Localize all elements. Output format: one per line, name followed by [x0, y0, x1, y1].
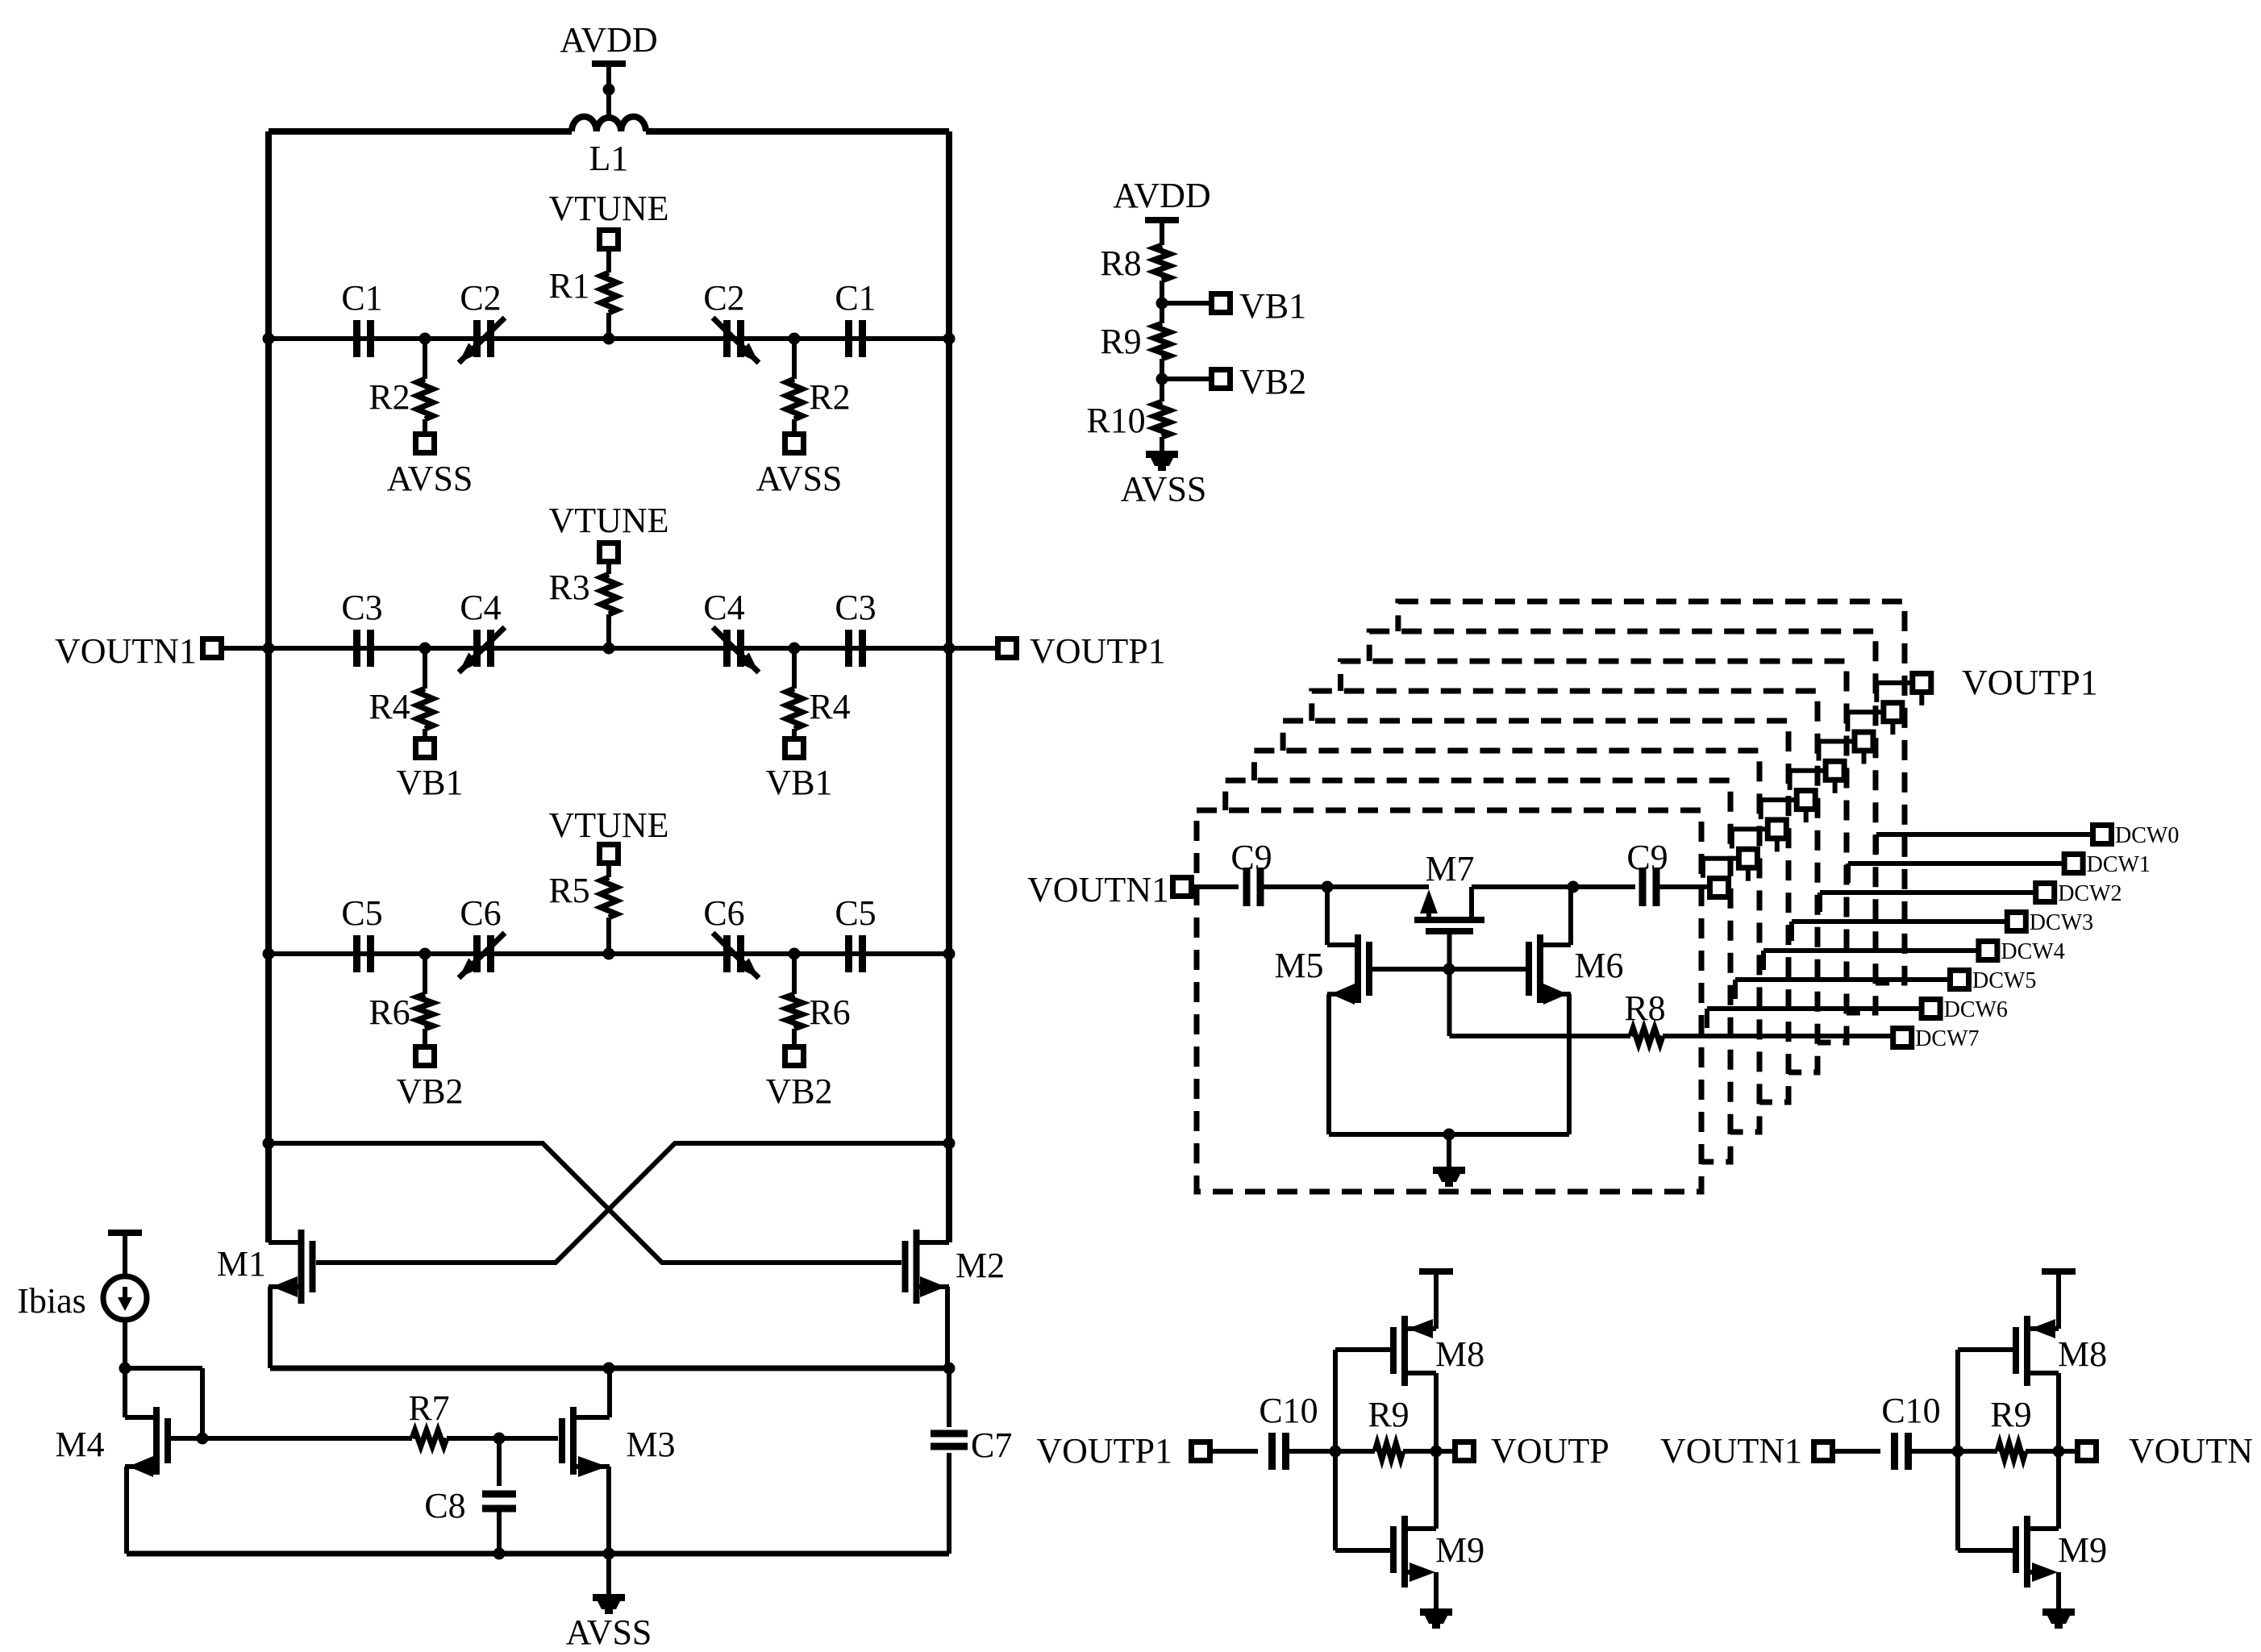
svg-text:C1: C1 — [341, 278, 382, 318]
svg-text:VB2: VB2 — [765, 1072, 832, 1111]
svg-text:C1: C1 — [835, 278, 876, 318]
svg-text:C7: C7 — [971, 1425, 1012, 1465]
svg-text:M5: M5 — [1274, 946, 1323, 985]
svg-text:DCW2: DCW2 — [2058, 881, 2122, 906]
svg-text:C6: C6 — [703, 893, 744, 933]
svg-text:DCW6: DCW6 — [1944, 997, 2008, 1022]
svg-text:R8: R8 — [1624, 988, 1665, 1028]
svg-text:R10: R10 — [1086, 401, 1145, 440]
svg-text:VOUTN1: VOUTN1 — [1027, 870, 1169, 909]
svg-text:VTUNE: VTUNE — [548, 501, 668, 540]
svg-text:L1: L1 — [589, 139, 629, 178]
svg-text:VOUTN1: VOUTN1 — [1660, 1431, 1802, 1471]
svg-text:C5: C5 — [835, 893, 876, 933]
svg-text:DCW5: DCW5 — [1972, 968, 2036, 993]
svg-text:C4: C4 — [703, 588, 744, 627]
svg-text:Ibias: Ibias — [17, 1281, 86, 1321]
svg-text:M8: M8 — [2058, 1334, 2107, 1374]
svg-text:C9: C9 — [1230, 838, 1272, 877]
svg-text:M4: M4 — [55, 1425, 104, 1464]
svg-text:R4: R4 — [809, 687, 850, 726]
svg-text:AVSS: AVSS — [566, 1612, 652, 1652]
svg-text:DCW4: DCW4 — [2001, 939, 2064, 964]
svg-text:VOUTP: VOUTP — [1491, 1431, 1609, 1471]
svg-text:R9: R9 — [1100, 322, 1141, 361]
svg-text:VB2: VB2 — [1239, 362, 1306, 402]
svg-text:R3: R3 — [548, 568, 589, 607]
svg-text:AVSS: AVSS — [756, 459, 843, 498]
svg-text:VTUNE: VTUNE — [548, 805, 668, 845]
svg-text:DCW1: DCW1 — [2087, 852, 2151, 877]
svg-text:C10: C10 — [1259, 1391, 1318, 1430]
svg-text:VB1: VB1 — [1239, 286, 1306, 326]
svg-text:C5: C5 — [341, 893, 382, 933]
svg-text:R9: R9 — [1368, 1395, 1409, 1434]
svg-text:VTUNE: VTUNE — [548, 189, 668, 228]
svg-text:DCW7: DCW7 — [1915, 1026, 1979, 1051]
svg-text:M9: M9 — [1435, 1530, 1484, 1570]
svg-text:M3: M3 — [626, 1425, 675, 1464]
svg-text:C2: C2 — [703, 278, 744, 318]
svg-text:R9: R9 — [1990, 1395, 2031, 1434]
svg-text:M1: M1 — [217, 1244, 266, 1284]
svg-text:VB2: VB2 — [396, 1072, 463, 1111]
svg-text:VB1: VB1 — [765, 763, 832, 802]
svg-text:R8: R8 — [1100, 243, 1141, 283]
svg-text:R7: R7 — [408, 1388, 449, 1428]
svg-text:M6: M6 — [1574, 946, 1623, 985]
svg-text:DCW3: DCW3 — [2030, 910, 2093, 935]
svg-text:VOUTN1: VOUTN1 — [55, 631, 197, 671]
svg-text:M8: M8 — [1435, 1334, 1484, 1374]
svg-text:AVDD: AVDD — [1113, 176, 1210, 215]
svg-text:R4: R4 — [369, 687, 410, 726]
svg-text:VOUTP1: VOUTP1 — [1962, 663, 2098, 702]
svg-text:C4: C4 — [460, 588, 501, 627]
svg-text:VOUTN: VOUTN — [2129, 1431, 2253, 1471]
svg-text:VOUTP1: VOUTP1 — [1030, 631, 1166, 671]
svg-text:C2: C2 — [460, 278, 501, 318]
svg-text:R1: R1 — [548, 266, 589, 306]
svg-text:C10: C10 — [1881, 1391, 1940, 1430]
svg-text:M2: M2 — [956, 1246, 1005, 1285]
svg-text:VB1: VB1 — [396, 763, 463, 802]
svg-text:VOUTP1: VOUTP1 — [1036, 1431, 1172, 1471]
svg-text:R2: R2 — [809, 377, 850, 417]
svg-text:R6: R6 — [809, 992, 850, 1032]
svg-text:C3: C3 — [835, 588, 876, 627]
svg-text:R5: R5 — [548, 871, 589, 910]
svg-text:M9: M9 — [2058, 1530, 2107, 1570]
svg-text:AVSS: AVSS — [1121, 469, 1207, 509]
svg-text:DCW0: DCW0 — [2115, 823, 2179, 848]
svg-text:C3: C3 — [341, 588, 382, 627]
svg-text:C8: C8 — [424, 1486, 465, 1525]
svg-text:C6: C6 — [460, 893, 501, 933]
svg-text:M7: M7 — [1425, 849, 1474, 888]
svg-text:C9: C9 — [1626, 838, 1668, 877]
svg-text:AVDD: AVDD — [560, 20, 657, 60]
svg-text:R2: R2 — [369, 377, 410, 417]
svg-text:R6: R6 — [369, 992, 410, 1032]
svg-text:AVSS: AVSS — [387, 459, 473, 498]
